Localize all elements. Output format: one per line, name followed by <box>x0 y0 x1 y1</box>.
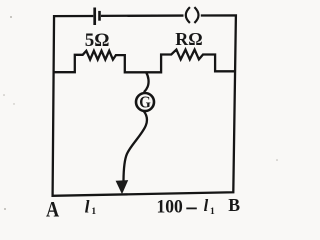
svg-text:100: 100 <box>157 197 183 218</box>
svg-text:l: l <box>204 196 209 215</box>
svg-text:l: l <box>85 196 90 216</box>
svg-text:A: A <box>46 197 60 222</box>
svg-text:1: 1 <box>91 207 96 217</box>
svg-text:RΩ: RΩ <box>175 29 202 49</box>
svg-text:5Ω: 5Ω <box>85 30 110 51</box>
svg-text:B: B <box>228 195 240 215</box>
svg-text:G: G <box>139 93 151 112</box>
svg-text:1: 1 <box>210 207 215 217</box>
